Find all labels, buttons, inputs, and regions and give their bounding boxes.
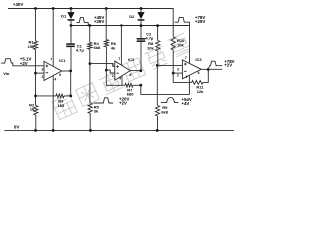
svg-text:3: 3 [42,68,44,72]
svg-text:IC1: IC1 [59,58,66,63]
svg-text:+29V: +29V [94,19,104,24]
svg-text:Vin: Vin [3,71,10,76]
resistor R10 10k [171,37,175,50]
node 0V-R5 [89,129,92,132]
IC2 pin4 stub [121,76,123,85]
resistor R3 1k5 feedback [70,71,72,96]
resistor R11 12k feedback [192,81,203,85]
svg-text:1k5: 1k5 [58,103,65,108]
svg-text:2: 2 [177,74,179,78]
svg-text:4.7µ: 4.7µ [76,48,85,53]
wire IC2out to IC3 pin4 [141,85,190,94]
IC1 pin7 wire from rail [52,9,54,66]
node D2 bottom [140,24,143,27]
waveform symbol IC2out node [161,98,179,103]
svg-text:680: 680 [127,91,134,96]
svg-text:12k: 12k [197,89,204,94]
IC2 plus input mark [116,65,119,68]
IC2 pin7 wire from bootstrap [120,26,122,66]
svg-text:10k: 10k [177,42,184,47]
wire IC2 feedback leg [106,70,125,85]
resistor R8 10k [157,26,159,41]
node D1 bottom [70,24,73,27]
IC1 pin4 wire to 0V rail [52,76,54,131]
node R2-R3 [34,95,37,98]
svg-text:6: 6 [59,73,61,77]
diode D1 [70,9,72,13]
resistor R6 4k [105,9,107,40]
wire IC2 pin3 input [90,64,115,67]
node rail-D2 [140,7,143,10]
node 0V-R9 [156,129,159,132]
IC3 pin4 wire [188,76,190,95]
node IC2out-C2 [139,69,142,72]
svg-text:IC3: IC3 [195,57,202,62]
wire bootstrap node D1-D2-IC3pin7 [71,26,190,64]
node IC3out [207,68,210,71]
svg-text:4.7µ: 4.7µ [145,36,154,41]
svg-text:+29V: +29V [195,19,205,24]
IC3 minus input mark [184,70,187,72]
wire IC3 output [201,68,222,70]
capacitor C1 4.7u [70,26,72,44]
svg-text:15k: 15k [28,44,35,49]
svg-text:0V: 0V [14,125,19,130]
svg-text:+2V: +2V [119,101,127,106]
resistor R4 6k8 [89,26,91,43]
svg-text:3: 3 [177,67,179,71]
IC1 minus input mark [46,72,49,74]
svg-text:7: 7 [185,56,187,60]
resistor R5 3k [89,64,91,103]
node R6-pin2-feedback [105,69,108,72]
node rail-D1 [70,7,73,10]
resistor R9 6k8 [156,65,158,105]
node R10-pin2-R11 [172,72,175,75]
IC2 minus input mark [116,72,119,74]
node bootstrap-R4 [88,24,91,27]
svg-text:4: 4 [185,75,187,79]
wire IC1 output [62,70,71,72]
svg-text:D2: D2 [129,14,135,19]
watermark [52,33,192,120]
svg-text:4k: 4k [111,46,116,51]
svg-text:+30V: +30V [13,2,23,7]
svg-text:6: 6 [130,73,132,77]
resistor R2 1k [35,96,37,106]
svg-text:6k8: 6k8 [94,45,101,50]
svg-text:3: 3 [112,63,114,67]
node rail-IC1pin7 [52,7,55,10]
svg-text:4: 4 [54,77,56,81]
svg-text:6k8: 6k8 [161,109,168,114]
wire 0V bottom rail [4,129,234,131]
waveform symbol bootstrap node [175,17,190,25]
svg-text:10k: 10k [147,45,154,50]
IC1 plus input mark [46,65,49,68]
svg-text:+2V: +2V [20,61,28,66]
node 0V-R2 [34,129,37,132]
svg-text:D1: D1 [61,13,67,18]
node rail-R6 [105,7,108,10]
wire IC3 pin3 input [157,64,182,66]
svg-text:+4V: +4V [181,101,189,106]
node bootstrap-IC2pin7 [120,24,122,26]
svg-text:6: 6 [198,71,200,75]
node 0V-IC1pin4 [52,129,55,132]
op-amp IC3 triangle [182,60,201,79]
svg-text:2: 2 [112,74,114,78]
svg-text:2: 2 [42,75,44,79]
svg-text:7: 7 [118,57,120,61]
wire R1R2 column to R3 node [35,73,37,96]
wire IC2 pin2 input [106,70,115,73]
waveform symbol at D1 node [77,18,89,26]
node R3 right [69,95,72,98]
resistor R7 680 feedback [125,83,133,87]
wire IC1 pin2 input [36,72,45,74]
svg-text:3k: 3k [94,109,99,114]
node R1-R2-pin2 [34,72,37,75]
waveform symbol Vin pulse [1,59,44,66]
node R4-R5-pin3 [89,62,92,65]
wire IC3 pin2 input [173,72,182,74]
node IC1out-C1-R3 [69,70,72,73]
waveform symbol IC3 output [208,61,222,69]
op-amp IC2 triangle [115,61,130,80]
IC3 plus input mark [184,63,187,66]
wire IC2 output [130,70,141,72]
svg-text:4: 4 [119,76,121,80]
node rail-R1 [34,7,37,10]
svg-text:IC2: IC2 [128,57,135,62]
op-amp IC1 triangle [44,61,62,80]
wire +30V top rail with corner down into R10 column [8,9,173,37]
node R7-IC2out [139,84,142,87]
node bootstrap-R8 [156,24,159,27]
capacitor C2 4.7u [140,26,142,38]
node R8-R9-pin3wire [156,64,159,67]
waveform symbol IC2 pin3 node [94,98,114,103]
diode D2 [140,9,142,13]
svg-text:7: 7 [50,58,52,62]
svg-text:1k: 1k [30,107,35,112]
svg-text:+2V: +2V [224,62,232,67]
resistor R1 15k [35,9,37,42]
wire IC3 feedback leg [173,73,191,82]
